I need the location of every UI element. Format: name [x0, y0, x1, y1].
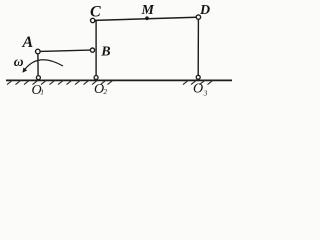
svg-text:D: D: [199, 3, 210, 18]
svg-text:B: B: [100, 45, 110, 60]
svg-text:M: M: [141, 3, 155, 18]
svg-text:O: O: [193, 82, 203, 97]
pin D: [196, 15, 200, 19]
link AB: [40, 50, 90, 51]
svg-text:ω: ω: [14, 54, 24, 69]
svg-text:1: 1: [40, 88, 44, 97]
pivot O2: [94, 76, 98, 80]
pin A: [36, 49, 41, 54]
crank O1A: [37, 54, 39, 76]
member DO3: [197, 19, 199, 75]
ground line: [6, 79, 232, 81]
pin C: [91, 18, 95, 22]
svg-text:C: C: [90, 3, 101, 20]
svg-text:A: A: [22, 34, 34, 51]
pin B: [90, 48, 94, 52]
rod CD: [95, 17, 196, 20]
ground hatching left section: [7, 80, 113, 84]
svg-text:2: 2: [103, 87, 107, 96]
point M: [145, 16, 149, 20]
svg-text:3: 3: [203, 89, 208, 98]
omega rotation arc: [25, 60, 63, 70]
member O2C: [95, 21, 96, 76]
pivot O1: [36, 76, 40, 80]
pivot O3: [196, 75, 200, 79]
omega arc arrowhead: [22, 68, 27, 73]
ground hatching right section: [183, 80, 213, 84]
